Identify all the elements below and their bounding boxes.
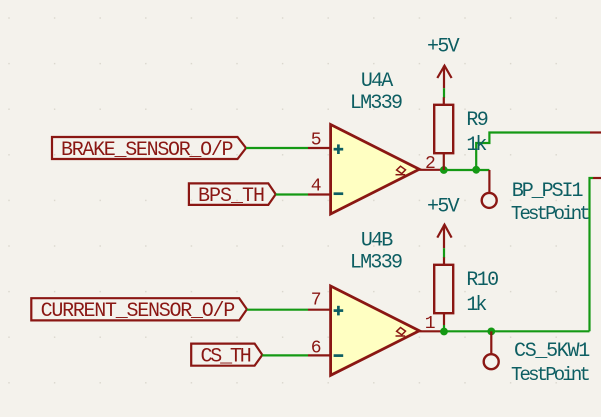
junction at branch to right [472, 166, 480, 174]
U4A plus input symbol [334, 144, 344, 154]
svg-text:1: 1 [425, 314, 436, 334]
U4B minus input symbol [334, 354, 344, 357]
junction at test point branch [487, 328, 495, 336]
svg-text:4: 4 [311, 176, 322, 196]
pin 2 output stub [419, 169, 444, 171]
svg-text:2: 2 [425, 154, 436, 174]
svg-text:LM339: LM339 [350, 92, 402, 115]
pin 1 output stub [419, 330, 444, 332]
off-page pin stub right top [590, 131, 601, 133]
svg-text:BRAKE_SENSOR_O/P: BRAKE_SENSOR_O/P [61, 139, 233, 162]
svg-text:BPS_TH: BPS_TH [198, 185, 264, 208]
global label BRAKE_SENSOR_O/P [52, 137, 246, 162]
wire label2 to pin 4 [276, 193, 308, 195]
svg-text:TestPoint: TestPoint [511, 364, 589, 386]
svg-text:R10: R10 [466, 269, 498, 292]
test point CS_5KW1 [484, 331, 499, 369]
pin 5 stub [308, 147, 332, 149]
svg-text:+5V: +5V [427, 35, 460, 58]
wire label4 to pin 6 [262, 354, 308, 356]
wire label3 to pin 7 [247, 309, 308, 311]
op-amp U4B triangle [331, 286, 420, 375]
svg-text:R9: R9 [466, 109, 487, 132]
svg-text:TestPoint: TestPoint [511, 203, 589, 225]
power +5V top [427, 35, 460, 88]
wire +5V to R10 [443, 248, 445, 258]
svg-text:CS_TH: CS_TH [201, 346, 251, 369]
svg-text:CS_5KW1: CS_5KW1 [514, 340, 590, 363]
svg-text:LM339: LM339 [350, 251, 402, 274]
junction at R9 bottom [440, 166, 448, 174]
svg-text:CURRENT_SENSOR_O/P: CURRENT_SENSOR_O/P [41, 300, 235, 323]
svg-text:6: 6 [311, 338, 322, 358]
svg-text:BP_PSI1: BP_PSI1 [512, 180, 584, 203]
global label BPS_TH [189, 183, 276, 208]
wire +5V to R9 [443, 88, 445, 98]
wire output node A [444, 169, 490, 171]
svg-text:U4A: U4A [361, 70, 393, 93]
wire output node B [444, 330, 590, 332]
svg-text:7: 7 [311, 290, 322, 310]
wire branch up to right edge [476, 133, 590, 170]
svg-text:U4B: U4B [361, 229, 393, 252]
pin 4 stub [308, 193, 332, 195]
svg-text:1k: 1k [466, 294, 486, 317]
global label CURRENT_SENSOR_O/P [31, 298, 247, 323]
off-page pin stub right middle [593, 177, 601, 179]
svg-text:1k: 1k [466, 134, 486, 157]
junction at R10 bottom [440, 328, 448, 336]
U4B open-collector diamond [396, 328, 406, 337]
pin 6 stub [308, 354, 332, 356]
svg-text:+5V: +5V [427, 196, 460, 219]
U4B plus input symbol [334, 306, 344, 316]
svg-text:5: 5 [311, 130, 322, 150]
test point BP_PSI1 [482, 170, 497, 208]
pin 7 stub [308, 309, 332, 311]
resistor R10 [434, 257, 453, 331]
global label CS_TH [191, 344, 262, 369]
resistor R9 [434, 97, 453, 170]
wire label1 to pin 5 [246, 147, 308, 149]
power +5V bottom [427, 196, 460, 249]
op-amp U4A triangle [331, 125, 420, 215]
U4A minus input symbol [334, 192, 344, 195]
U4A open-collector diamond [396, 166, 406, 175]
wire up right edge [590, 178, 594, 331]
